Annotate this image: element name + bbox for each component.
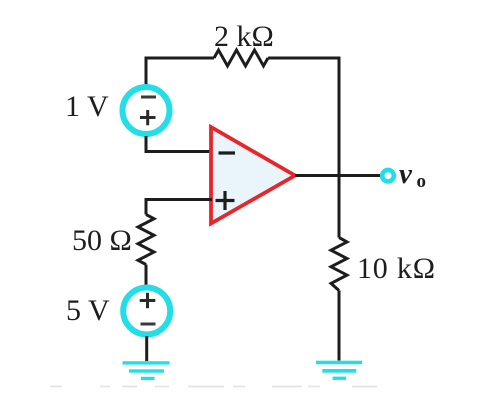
label 10 kOhm value (357, 252, 436, 285)
wire: op-amp non-inverting input to left branch (146, 200, 212, 215)
label 5 V value (66, 294, 110, 327)
svg-text:o: o (417, 171, 427, 192)
voltage source V1 1V (circle) (123, 87, 170, 134)
op-amp U1 (211, 127, 295, 224)
label vo (399, 158, 426, 192)
minus sign of source V2 (141, 323, 156, 326)
svg-text:50 Ω: 50 Ω (72, 224, 132, 257)
resistor 50 Ohm (138, 215, 154, 265)
resistor 2 kOhm (feedback) (214, 50, 268, 66)
plus sign of source V2 (140, 293, 156, 308)
label 50 Ohm value (72, 224, 132, 257)
ground (left, under 5V source) (123, 361, 170, 380)
wire: 10 kOhm resistor to right ground (338, 291, 341, 361)
wire: 50 Ohm resistor to 5V source top (145, 265, 148, 287)
minus sign at op-amp inverting input (219, 151, 236, 154)
wire: 5V source bottom to left ground (145, 336, 148, 361)
svg-text:1 V: 1 V (65, 90, 109, 123)
wire: op-amp output to node vo (295, 174, 380, 177)
plus sign at op-amp non-inverting input (216, 191, 235, 210)
svg-text:2 kΩ: 2 kΩ (214, 20, 274, 53)
label 2 kOhm value (214, 20, 274, 53)
wire: from 1V source bottom to op-amp inverting input (146, 136, 212, 152)
svg-text:v: v (399, 158, 413, 190)
svg-text:5 V: 5 V (66, 294, 110, 327)
svg-text:10 kΩ: 10 kΩ (357, 252, 436, 285)
wire: feedback top-right segment and right branch down to output junction and 10k resistor (268, 58, 339, 238)
voltage source V2 5V (circle) (123, 288, 170, 335)
resistor 10 kOhm (331, 238, 347, 291)
plus sign of source V1 (140, 110, 156, 125)
wire: feedback top-left segment from 1V source top up and right to 2k resistor (146, 58, 214, 85)
ground (right, under 10 kOhm) (316, 361, 362, 380)
node vo terminal (382, 170, 394, 182)
cropped text artifacts at bottom edge (50, 386, 377, 388)
label 1 V value (65, 90, 109, 123)
minus sign of source V1 (141, 96, 156, 99)
